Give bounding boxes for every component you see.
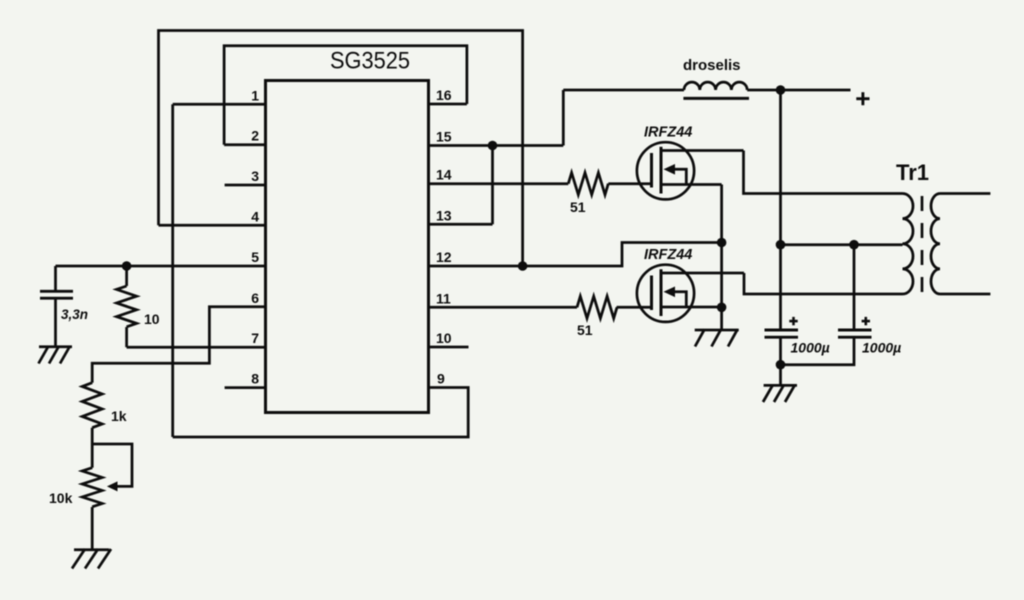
node pin15 junction [488,141,498,151]
wire pin4 [159,224,266,227]
transistor Q1 body arrow [672,169,686,184]
label IRFZ44 Q2 [644,247,692,263]
label + supply [856,92,869,105]
node center tap supply junction [776,240,786,250]
label 3,3n [61,307,88,322]
capacitor C2 1000µ plates [765,330,799,337]
wire bottom loop pin9 [173,388,469,438]
node ground junction [776,360,786,370]
wire Q1 drain to transformer [744,151,903,194]
potentiometer R10k 10k [82,468,102,507]
label 51 bottom [577,322,593,338]
svg-text:10: 10 [144,311,160,327]
svg-text:8: 8 [251,371,259,387]
transistor Q1 source tap [661,183,722,186]
svg-text:1000µ: 1000µ [862,340,901,356]
transistor Q2 circle [637,265,694,322]
node center tap C3 junction [849,240,859,250]
wire long vertical pin1 to bottom loop [171,104,174,437]
wire supply rail down [779,90,782,329]
wire pot wiper feedback [92,444,132,486]
wire pin15 [429,144,564,147]
wire pin12 [429,243,722,267]
capacitor C1 plates [40,291,73,298]
wire resistor to Q2 gate [617,306,652,309]
transformer Tr1 primary winding [903,194,914,295]
inductor L1 droselis humps [684,82,747,90]
wire pin7 [127,346,266,349]
resistor R51a 51 [568,173,608,195]
svg-text:16: 16 [436,87,452,103]
node pin5 junction [122,261,132,271]
svg-text:3,3n: 3,3n [61,307,88,322]
transistor Q2 channel bar [660,269,663,316]
wire pin16 stub [429,103,467,106]
wire pin1 [173,103,266,106]
label IRFZ44 Q1 [644,124,692,140]
ground for Q2 source [695,329,739,346]
label 51 top [570,199,586,215]
wire pin10 stub [429,346,469,349]
label + C2 [789,317,797,325]
wire Q1 source down to ground rail [720,185,723,331]
svg-text:10: 10 [436,330,452,346]
label 10k [49,490,73,506]
resistor R1k 1k [82,383,102,428]
transistor Q2 gate bar [650,276,653,311]
svg-text:droselis: droselis [683,57,741,74]
wire pin15 riser to droselis [562,90,565,146]
transistor Q2 source tap [661,306,722,309]
label 1k [111,408,127,424]
transistor Q2 drain tap [661,272,744,275]
svg-text:4: 4 [251,208,259,224]
wire pin8 stub [225,386,266,389]
transistor Q1 gate bar [650,153,653,188]
pot wiper arrow head [107,481,118,491]
node Q1 source junction [717,238,727,248]
wire pin11 to resistor [429,306,578,309]
label pin numbers left [251,87,259,386]
svg-text:51: 51 [570,199,586,215]
op-amp U1 SG3525 IC body [266,81,429,413]
label pin numbers right [436,87,452,387]
svg-text:1000µ: 1000µ [791,340,830,356]
wire pin6 to R1k [92,307,265,383]
transformer Tr1 secondary winding [931,194,940,295]
transistor Q1 IRFZ44 [637,124,744,199]
wire C3 bottom to ground junction [781,337,855,365]
wire resistor to Q1 gate [608,182,651,185]
svg-text:12: 12 [436,249,452,265]
svg-text:3: 3 [251,168,259,184]
svg-text:IRFZ44: IRFZ44 [644,247,692,263]
transistor Q2 body arrow [672,292,686,307]
svg-text:10k: 10k [49,490,73,506]
capacitor C3 1000µ lead top [853,245,856,330]
transistor Q1 channel bar [660,147,663,194]
transistor Q1 drain tap [661,149,744,152]
wire pin5 [56,265,266,268]
capacitor C2 lead bottom [779,337,782,385]
wire droselis to plus [747,89,850,92]
inductor L1 core bar [683,97,749,100]
wire R1k to pot [91,428,94,468]
resistor R10 10 lead top [125,266,128,286]
resistor R10 10 [117,286,137,327]
label 1000µ C3 [862,340,901,356]
svg-text:7: 7 [251,330,259,346]
wire label-box around SG3525 (pin2 to pin16) [224,46,467,145]
svg-text:SG3525: SG3525 [330,48,410,75]
wire pin13 stub [429,223,493,226]
transistor Q1 circle [637,142,694,199]
node Q2 source junction [717,303,727,313]
wire pot to ground [91,507,94,550]
wire pin2 stub [224,143,265,146]
wire Q2 drain to transformer [744,273,903,294]
wire pin15 to pin13 link [491,146,494,225]
ground for capacitors [763,385,797,402]
label 1000µ C2 [791,340,830,356]
svg-text:2: 2 [251,128,259,144]
node pin12 outer loop junction [518,261,528,271]
resistor R51b 51 [577,296,617,318]
svg-text:15: 15 [436,129,452,145]
svg-text:14: 14 [436,167,452,183]
ground for pot [72,549,111,569]
wire secondary top [940,192,990,195]
wire outer loop pin4 to pin12 [159,31,523,267]
capacitor C1 3,3n lead top [54,266,57,291]
svg-text:51: 51 [577,322,593,338]
label 10 [144,311,160,327]
svg-text:1: 1 [251,87,259,103]
svg-text:6: 6 [251,290,259,306]
svg-text:9: 9 [437,371,445,387]
label droselis [683,57,741,74]
capacitor C1 lead bottom [54,298,57,347]
svg-text:1k: 1k [111,408,127,424]
label SG3525 [330,48,410,75]
transformer Tr1 label [896,160,929,185]
transformer Tr1 core dashed [921,196,924,292]
node supply junction [776,85,786,95]
svg-text:11: 11 [436,290,451,306]
svg-text:13: 13 [436,207,452,223]
inductor L1 droselis wire left [563,89,684,92]
svg-text:Tr1: Tr1 [896,160,929,185]
wire center tap [781,243,903,246]
capacitor C3 plates [838,330,872,337]
wire pin14 to resistor [429,182,569,185]
label + C3 [862,317,870,325]
ground for C1 [39,346,73,364]
resistor R10 lead bottom [125,327,128,347]
wire pin3 stub [225,184,266,187]
transistor Q2 IRFZ44 [637,247,744,322]
svg-text:IRFZ44: IRFZ44 [644,124,692,140]
wire secondary bottom [940,293,990,296]
svg-text:5: 5 [251,249,259,265]
